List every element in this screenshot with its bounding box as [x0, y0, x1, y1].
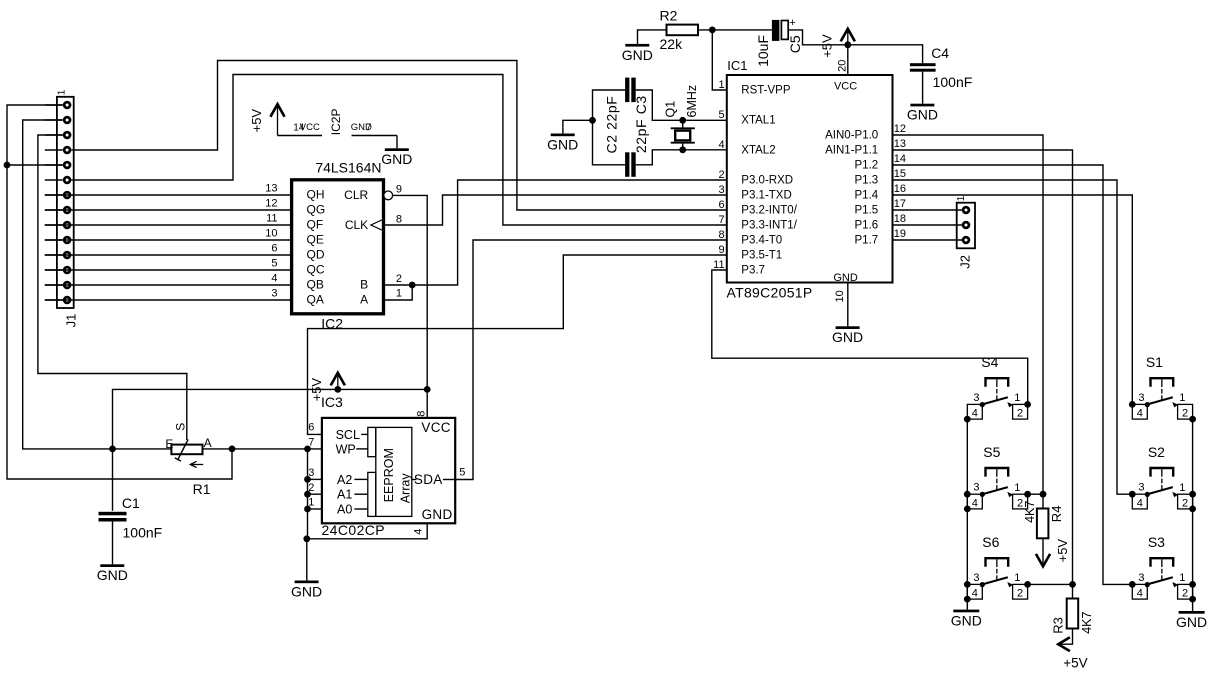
svg-text:13: 13: [894, 138, 906, 150]
svg-text:IC2: IC2: [321, 315, 343, 331]
ground GND at right switch chain: [1179, 611, 1205, 614]
svg-text:17: 17: [894, 198, 906, 210]
connector J1 pads: [64, 102, 70, 108]
svg-text:3: 3: [973, 572, 979, 584]
wire J1 pin 14 to IC2 QA: [45, 299, 292, 301]
svg-text:C1: C1: [122, 495, 140, 511]
svg-text:2: 2: [1182, 588, 1188, 600]
node RST junction: [709, 27, 716, 34]
node R1 A junction: [229, 446, 236, 453]
svg-text:2: 2: [1017, 588, 1023, 600]
svg-text:3: 3: [1138, 572, 1144, 584]
wire C2 right to XTAL2 net: [636, 150, 727, 165]
node IC3 A2 junction: [304, 476, 311, 483]
svg-text:22k: 22k: [660, 36, 684, 52]
wire +5V rail to C1 and R1 E: [113, 389, 428, 510]
wire R1 A to IC3 WP: [203, 448, 322, 450]
svg-text:6: 6: [308, 422, 314, 434]
node IC3 A1 junction: [304, 491, 311, 498]
wire C3 and C2 left plates: [593, 90, 626, 165]
capacitor C5 10uF electrolytic: [772, 20, 780, 41]
svg-text:1: 1: [396, 287, 402, 299]
svg-text:22pF C3: 22pF C3: [633, 95, 649, 153]
wire P1.1 to R3 S6: [893, 150, 1073, 599]
ground GND at IC2P: [385, 148, 409, 151]
ground GND at C2 C3: [551, 134, 575, 137]
svg-text:10: 10: [834, 290, 846, 302]
node +5V arrow junction: [334, 386, 341, 393]
switch S1: [1151, 378, 1174, 387]
svg-text:Array: Array: [399, 473, 413, 504]
svg-text:4: 4: [412, 529, 424, 535]
svg-text:A: A: [204, 436, 212, 450]
wire IC2 pin A: [384, 285, 413, 300]
IC2 74LS164N box: [292, 180, 384, 314]
svg-text:19: 19: [894, 228, 906, 240]
wire J1 pin 1 down-left: [7, 105, 232, 479]
svg-text:XTAL1: XTAL1: [741, 114, 775, 126]
wire IC2 pin B: [384, 284, 413, 286]
trimmer R1 body: [171, 445, 202, 455]
svg-text:QD: QD: [307, 247, 325, 261]
svg-text:2: 2: [1182, 408, 1188, 420]
wire P3.3-INT1 to J1 pin 6 riser: [72, 75, 727, 226]
node IC3 VCC rail junction: [424, 386, 431, 393]
svg-text:3: 3: [308, 467, 314, 479]
svg-text:6MHz: 6MHz: [685, 85, 699, 118]
svg-text:GND: GND: [381, 151, 412, 167]
svg-text:+5V: +5V: [820, 34, 835, 58]
wire C5 right to +5V node: [788, 30, 848, 45]
svg-text:S4: S4: [981, 354, 998, 370]
svg-text:2: 2: [308, 482, 314, 494]
svg-text:SDA: SDA: [414, 472, 443, 487]
svg-text:P3.4-T0: P3.4-T0: [741, 234, 782, 246]
ground GND at C1: [100, 564, 124, 567]
wire S5 to R4 node: [1028, 493, 1043, 495]
svg-text:11: 11: [266, 212, 277, 224]
svg-text:7: 7: [308, 437, 314, 449]
svg-text:4: 4: [1137, 408, 1143, 420]
svg-text:1: 1: [1179, 392, 1185, 404]
wire P1.7 to J2 pin 3: [893, 239, 963, 241]
svg-text:P1.7: P1.7: [855, 234, 879, 246]
supply +5V arrow at IC2P: [277, 105, 279, 135]
svg-text:A: A: [360, 292, 368, 306]
svg-text:P1.5: P1.5: [855, 204, 879, 216]
svg-text:P1.3: P1.3: [855, 174, 879, 186]
svg-text:24C02CP: 24C02CP: [322, 522, 386, 538]
svg-text:3: 3: [1138, 482, 1144, 494]
svg-text:P3.1-TXD: P3.1-TXD: [741, 189, 792, 201]
svg-text:AIN0-P1.0: AIN0-P1.0: [825, 129, 878, 141]
IC2P VCC pin 14 lead: [278, 135, 323, 137]
svg-text:C5: C5: [787, 35, 803, 53]
svg-text:1: 1: [56, 89, 67, 95]
svg-text:S1: S1: [1146, 354, 1163, 370]
wire R2 right to node RST: [698, 29, 772, 31]
wire P1.2 to S3: [893, 165, 1133, 584]
svg-text:GND: GND: [422, 507, 453, 522]
svg-text:P3.7: P3.7: [741, 264, 765, 276]
svg-text:15: 15: [894, 168, 906, 180]
svg-text:IC1: IC1: [727, 58, 747, 73]
svg-text:S5: S5: [983, 444, 1000, 460]
svg-text:14: 14: [894, 153, 906, 165]
wire J1 pin 3 to R1 wiper S: [38, 135, 187, 440]
ground GND at left switch chain: [953, 610, 979, 613]
svg-text:4: 4: [972, 588, 978, 600]
wire J1 pin 8 to IC2 QG: [45, 209, 292, 211]
svg-text:IC2P: IC2P: [329, 109, 343, 136]
svg-text:1: 1: [1014, 482, 1020, 494]
svg-text:1: 1: [956, 195, 967, 201]
svg-text:8: 8: [396, 213, 402, 225]
svg-text:B: B: [360, 277, 368, 291]
IC1 pin 10 GND lead: [847, 283, 849, 327]
svg-text:5: 5: [271, 257, 277, 269]
node J1 pin1/pin5 junction: [4, 162, 11, 169]
wire S1 S2 S3 right chain to GND: [1192, 419, 1194, 611]
svg-text:VCC: VCC: [300, 122, 320, 133]
J1 pin lead stubs: [45, 104, 63, 106]
resistor R4 4K7: [1037, 509, 1049, 539]
svg-text:J1: J1: [64, 314, 79, 328]
svg-text:R4: R4: [1049, 506, 1064, 523]
IC2 CLR bubble pin 9: [384, 191, 393, 200]
svg-text:7: 7: [366, 123, 372, 134]
svg-text:QE: QE: [307, 232, 324, 246]
svg-text:10: 10: [265, 227, 277, 239]
supply +5V arrow left of R3 bottom: [1059, 629, 1073, 645]
svg-text:VCC: VCC: [421, 420, 450, 435]
wire P3.2-INT0 to J1 pin 4 riser: [72, 61, 727, 211]
supply +5V arrow at VCC: [847, 30, 849, 45]
svg-text:GND: GND: [97, 567, 128, 583]
svg-text:IC3: IC3: [321, 394, 343, 410]
svg-text:8: 8: [415, 411, 427, 417]
svg-text:GND: GND: [951, 613, 982, 629]
IC3 left pin leads: [307, 449, 309, 539]
capacitor C4 100nF: [910, 63, 936, 66]
wire P3.5-T1 to IC3 SCL: [308, 255, 727, 434]
svg-text:P1.6: P1.6: [855, 219, 879, 231]
resistor R2: [667, 25, 699, 36]
svg-text:GND: GND: [833, 272, 858, 284]
wire J1 pin 2 to R1 E line: [23, 120, 172, 449]
node IC3 GND rail corner: [303, 535, 310, 542]
capacitor C3 22pF: [625, 78, 629, 103]
wire C3 right to XTAL1 net: [636, 90, 727, 120]
crystal Q1 6MHz: [682, 120, 684, 127]
supply +5V arrow at IC3: [337, 374, 339, 390]
wire P3.0-RXD to IC2 A B: [412, 180, 727, 285]
node VCC junction: [844, 41, 851, 48]
svg-text:4: 4: [718, 139, 724, 151]
wire IC2 CLR to +5V rail and IC3 VCC pin 8: [393, 195, 428, 418]
svg-text:1: 1: [1179, 482, 1185, 494]
svg-text:GND: GND: [291, 583, 322, 599]
svg-text:1: 1: [1014, 392, 1020, 404]
svg-text:1: 1: [1179, 572, 1185, 584]
resistor R3 4K7: [1067, 599, 1079, 629]
wire J1 pin 5 to pin1 riser: [7, 164, 63, 166]
svg-text:4: 4: [972, 497, 978, 509]
svg-text:J2: J2: [957, 255, 972, 269]
svg-text:+5V: +5V: [1055, 539, 1070, 563]
svg-text:9: 9: [396, 183, 402, 195]
wire C1 to GND: [112, 522, 114, 565]
svg-text:5: 5: [718, 109, 724, 121]
node XTAL1 junction: [679, 117, 686, 124]
svg-text:20: 20: [836, 60, 848, 72]
switch S6: [986, 558, 1009, 567]
svg-text:GND: GND: [622, 47, 653, 63]
wire VCC node to C4: [848, 45, 923, 63]
node IC2 A B junction: [409, 282, 416, 289]
wire to GND symbol: [563, 120, 593, 133]
svg-text:1: 1: [308, 497, 314, 509]
svg-text:2: 2: [1182, 497, 1188, 509]
svg-text:4: 4: [1137, 497, 1143, 509]
svg-text:P1.4: P1.4: [855, 189, 879, 201]
svg-text:R2: R2: [660, 8, 678, 24]
svg-text:R1: R1: [193, 481, 211, 497]
R1 wiper diagonal: [178, 440, 188, 460]
svg-text:3: 3: [973, 482, 979, 494]
wire J1 pin 9 to IC2 QF: [45, 224, 292, 226]
svg-text:S3: S3: [1148, 534, 1165, 550]
svg-text:Q1: Q1: [664, 101, 678, 118]
wire IC3 GND rail to ground: [306, 539, 308, 581]
wire P3.4-T0 to IC3 SDA: [455, 240, 727, 480]
wire P1.0 to R4 S5: [893, 135, 1044, 494]
svg-text:EEPROM: EEPROM: [382, 448, 396, 502]
svg-text:+5V: +5V: [1063, 655, 1087, 670]
svg-text:6: 6: [271, 242, 277, 254]
svg-text:4: 4: [1137, 588, 1143, 600]
svg-text:A0: A0: [337, 502, 352, 516]
svg-text:P3.0-RXD: P3.0-RXD: [741, 174, 793, 186]
svg-text:C4: C4: [931, 45, 949, 61]
svg-text:2: 2: [1017, 408, 1023, 420]
svg-text:SCL: SCL: [336, 428, 360, 442]
wire P1.4 to S1: [893, 195, 1133, 404]
svg-text:3: 3: [973, 392, 979, 404]
svg-text:P1.2: P1.2: [855, 159, 879, 171]
wire J1 pin 13 to IC2 QB: [45, 284, 292, 286]
svg-text:GND: GND: [907, 107, 938, 123]
svg-text:P3.5-T1: P3.5-T1: [741, 249, 782, 261]
svg-text:4: 4: [271, 272, 277, 284]
svg-text:CLR: CLR: [344, 188, 368, 202]
wire IC2P GND down: [396, 136, 398, 149]
svg-text:16: 16: [894, 183, 906, 195]
svg-text:10uF: 10uF: [755, 35, 771, 67]
switch S3: [1151, 558, 1174, 567]
svg-text:12: 12: [894, 123, 906, 135]
svg-text:QB: QB: [307, 277, 324, 291]
node GND branch junction: [589, 117, 596, 124]
svg-text:QG: QG: [307, 202, 326, 216]
wire VCC node to IC1 pin 20: [847, 45, 849, 74]
svg-text:GND: GND: [547, 136, 578, 152]
svg-text:4K7: 4K7: [1080, 612, 1094, 634]
svg-text:A2: A2: [337, 473, 352, 487]
wire J1 pin 7 to IC2 QH: [45, 194, 292, 196]
capacitor C2 22pF: [625, 152, 629, 177]
svg-text:5: 5: [459, 467, 465, 479]
wire P3.1-TXD to IC2 CLK: [384, 195, 727, 225]
svg-text:100nF: 100nF: [933, 74, 973, 90]
svg-text:QC: QC: [307, 262, 325, 276]
wire P1.3 to S2: [893, 180, 1133, 494]
wire IC3 GND rail pin 4: [307, 523, 427, 539]
svg-text:4: 4: [972, 408, 978, 420]
ground GND at IC1 pin 10: [836, 326, 860, 329]
wire C4 to GND: [922, 72, 924, 104]
IC3 inner pin name dashes: [361, 433, 368, 435]
svg-text:3: 3: [1138, 392, 1144, 404]
supply +5V arrow below R4 pointing down: [1042, 538, 1044, 565]
svg-text:4K7: 4K7: [1023, 501, 1037, 523]
svg-text:P3.2-INT0/: P3.2-INT0/: [741, 204, 797, 216]
svg-text:A1: A1: [337, 488, 352, 502]
svg-text:S2: S2: [1148, 444, 1165, 460]
svg-text:XTAL2: XTAL2: [741, 144, 775, 156]
svg-text:S: S: [173, 423, 187, 431]
ground GND at R2: [625, 44, 649, 47]
svg-text:CLK: CLK: [345, 218, 368, 232]
wire S4 S5 S6 left chain to GND: [966, 419, 968, 609]
svg-text:RST-VPP: RST-VPP: [741, 84, 791, 96]
R1 adjust arrow: [190, 464, 203, 466]
svg-text:GND: GND: [1176, 614, 1207, 630]
node XTAL2 junction: [679, 146, 686, 153]
svg-text:+: +: [789, 17, 795, 29]
wire S6 to R3 node: [1028, 583, 1073, 585]
svg-text:AT89C2051P: AT89C2051P: [727, 285, 813, 301]
svg-text:P3.3-INT1/: P3.3-INT1/: [741, 219, 797, 231]
node R4 top junction: [1040, 491, 1047, 498]
wire R2 left to GND: [638, 30, 667, 44]
svg-text:QF: QF: [307, 217, 324, 231]
svg-text:100nF: 100nF: [123, 525, 163, 541]
svg-text:2: 2: [396, 273, 402, 285]
svg-text:WP: WP: [336, 442, 356, 456]
node R1 E +5V junction: [109, 446, 116, 453]
IC2 CLK clock triangle: [371, 219, 384, 231]
ground GND at IC3: [295, 581, 319, 584]
ground GND at C4: [910, 104, 934, 107]
node R3 top junction: [1069, 581, 1076, 588]
IC U1 AT89C2051P box: [727, 75, 893, 283]
wire P3.7 to switch S4: [712, 270, 1028, 404]
wire J1 pin 11 to IC2 QD: [45, 254, 292, 256]
svg-text:12: 12: [265, 197, 277, 209]
svg-text:R3: R3: [1050, 617, 1065, 634]
svg-text:AIN1-P1.1: AIN1-P1.1: [825, 144, 878, 156]
wire P1.5 to J2 pin 1: [893, 209, 963, 211]
switch S2: [1151, 468, 1174, 477]
wire J1 pin 10 to IC2 QE: [45, 239, 292, 241]
svg-text:QH: QH: [307, 187, 325, 201]
switch S4: [986, 378, 1009, 387]
svg-text:74LS164N: 74LS164N: [315, 159, 381, 175]
svg-text:C2 22pF: C2 22pF: [603, 96, 619, 154]
svg-text:18: 18: [894, 213, 906, 225]
connector J1 box: [57, 97, 74, 308]
IC3 EEPROM Array inner block: [376, 427, 412, 516]
wire node RST down to IC1 pin 1: [712, 30, 727, 90]
node IC3 A0 junction: [304, 506, 311, 513]
svg-text:1: 1: [718, 79, 724, 91]
svg-text:1: 1: [1014, 572, 1020, 584]
svg-text:E: E: [165, 437, 173, 451]
switch S5: [986, 468, 1009, 477]
connector J2: [957, 203, 975, 249]
IC2P GND pin 7 lead: [352, 135, 398, 137]
wire P1.6 to J2 pin 2: [893, 224, 963, 226]
node IC3 WP junction: [304, 446, 311, 453]
wire J1 pin 12 to IC2 QC: [45, 269, 292, 271]
IC3 24C02CP box: [322, 418, 455, 523]
svg-text:13: 13: [265, 182, 277, 194]
svg-text:3: 3: [271, 287, 277, 299]
svg-text:VCC: VCC: [834, 80, 857, 92]
svg-text:+5V: +5V: [249, 109, 264, 133]
svg-text:QA: QA: [307, 292, 324, 306]
capacitor C1 100nF: [99, 512, 127, 516]
svg-text:GND: GND: [832, 329, 863, 345]
svg-text:S6: S6: [982, 534, 999, 550]
